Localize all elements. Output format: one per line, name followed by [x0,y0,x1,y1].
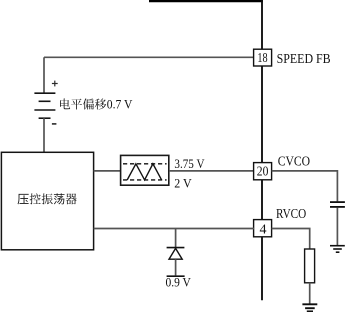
wire main vertical bus x=262 [261,0,263,300]
svg-text:0.7 V: 0.7 V [107,97,133,111]
svg-text:RVCO: RVCO [276,206,306,221]
0.9 V terminal bar [167,275,185,277]
VCO box U1 [1,152,93,250]
svg-text:0.9 V: 0.9 V [166,275,192,290]
triangle wave shaper box [121,155,169,185]
dashed lower level 2 V [123,179,167,181]
svg-text:CVCO: CVCO [278,154,310,169]
capacitor C1 [330,202,345,207]
wire resistor to ground [309,283,311,304]
triangle waveform [127,164,161,180]
wire pin 4 to resistor [272,229,310,250]
svg-text:2 V: 2 V [174,176,192,190]
label 压控振荡器 [18,193,77,204]
wire battery top lead [43,57,45,93]
zener diode D1 cathode bar [167,247,185,249]
pin 20 box [254,163,272,180]
wire VCO to wave shaper [94,170,121,172]
pin 18 box [254,49,272,66]
battery minus label [52,123,57,125]
wire zener top lead [175,229,177,248]
wire zener bottom lead [175,259,177,275]
zener diode D1 triangle [169,248,182,259]
pin 4 box [254,220,272,238]
ground for resistor [302,304,317,311]
ground for capacitor [330,246,345,253]
svg-text:3.75 V: 3.75 V [174,156,205,171]
wire top bus stub [149,0,263,2]
battery plus label [52,81,58,87]
wire pin 20 to capacitor [272,171,338,202]
wire SPEED FB horizontal from battery top to pin 18 [44,56,254,58]
battery B1 (level shift 0.7 V) [34,93,55,118]
wire VCO to pin 4 [94,228,254,230]
wire battery bottom lead to VCO [43,118,45,153]
svg-text:SPEED FB: SPEED FB [277,52,331,67]
svg-text:4: 4 [260,222,267,237]
wire capacitor to ground [336,208,338,246]
wire wave shaper to pin 20 [169,170,254,172]
svg-text:20: 20 [257,163,269,178]
label 电平偏移0.7 V [60,97,133,111]
dashed upper level 3.75 V [123,163,167,165]
resistor R1 [305,249,315,283]
svg-text:18: 18 [257,50,267,66]
